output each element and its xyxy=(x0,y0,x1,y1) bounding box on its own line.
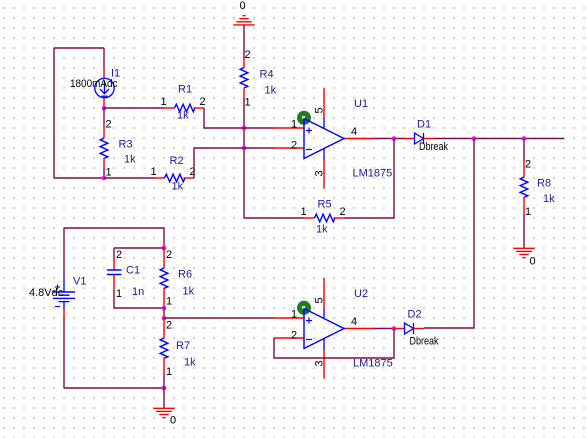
junction xyxy=(162,386,167,391)
svg-text:R5: R5 xyxy=(318,199,332,211)
resistor R1 xyxy=(161,84,206,122)
wire xyxy=(103,168,105,178)
svg-text:2: 2 xyxy=(190,166,196,178)
wire xyxy=(63,318,65,388)
svg-text:1k: 1k xyxy=(124,154,136,166)
wire xyxy=(104,177,154,179)
junction xyxy=(392,136,397,141)
svg-text:0: 0 xyxy=(240,0,246,12)
svg-text:2: 2 xyxy=(245,49,251,61)
junction xyxy=(472,136,477,141)
svg-text:3: 3 xyxy=(314,170,326,176)
wire xyxy=(63,228,65,278)
svg-text:1k: 1k xyxy=(177,110,189,122)
svg-text:2: 2 xyxy=(340,206,346,218)
svg-text:U2: U2 xyxy=(354,288,368,300)
wire xyxy=(53,48,55,178)
svg-text:1: 1 xyxy=(291,309,297,321)
junction xyxy=(242,146,247,151)
svg-text:R7: R7 xyxy=(176,340,190,352)
svg-text:R4: R4 xyxy=(260,69,274,81)
svg-text:1: 1 xyxy=(106,167,112,179)
diode D2 xyxy=(394,309,439,348)
wire xyxy=(344,139,394,219)
svg-text:1k: 1k xyxy=(183,286,195,298)
svg-text:0: 0 xyxy=(530,256,536,268)
svg-text:2: 2 xyxy=(291,330,297,342)
svg-text:5: 5 xyxy=(314,107,326,113)
svg-text:1k: 1k xyxy=(316,224,328,236)
ground 0 (top, inverted) xyxy=(233,16,254,25)
svg-text:LM1875: LM1875 xyxy=(353,358,393,370)
svg-text:V1: V1 xyxy=(73,276,86,288)
svg-text:R2: R2 xyxy=(170,155,184,167)
wire xyxy=(114,247,164,249)
junction xyxy=(522,136,527,141)
marker (green) at U1 pin 1 xyxy=(297,111,311,125)
svg-text:1: 1 xyxy=(245,97,251,109)
ground 0 (right) xyxy=(513,248,534,257)
svg-text:R1: R1 xyxy=(178,84,192,96)
svg-text:2: 2 xyxy=(166,320,172,332)
svg-text:LM1875: LM1875 xyxy=(353,168,393,180)
svg-text:1k: 1k xyxy=(543,193,555,205)
svg-text:2: 2 xyxy=(200,96,206,108)
wire xyxy=(194,148,274,178)
wire xyxy=(204,108,274,128)
wire xyxy=(113,248,115,257)
junction xyxy=(392,326,397,331)
svg-text:1k: 1k xyxy=(184,357,196,369)
junction xyxy=(162,316,167,321)
resistor R7 xyxy=(160,318,196,378)
svg-text:U1: U1 xyxy=(354,98,368,110)
svg-text:R3: R3 xyxy=(119,139,133,151)
svg-text:1: 1 xyxy=(525,206,531,218)
svg-text:1: 1 xyxy=(301,206,307,218)
wire xyxy=(424,139,474,329)
wire xyxy=(374,328,394,330)
wire xyxy=(103,48,105,68)
svg-text:D1: D1 xyxy=(417,119,431,131)
ground 0 (bottom) xyxy=(153,408,174,417)
resistor R5 xyxy=(301,199,346,236)
svg-text:5: 5 xyxy=(314,297,326,303)
junction xyxy=(102,106,107,111)
svg-text:2: 2 xyxy=(291,140,297,152)
wire xyxy=(54,47,104,49)
svg-text:Dbreak: Dbreak xyxy=(419,141,448,153)
wire xyxy=(243,25,245,58)
resistor R3 xyxy=(100,119,136,179)
wire xyxy=(54,177,104,179)
wire xyxy=(274,329,394,359)
wire xyxy=(104,107,164,109)
marker (green) at U2 pin 1 xyxy=(297,301,311,315)
junction xyxy=(242,126,247,131)
svg-text:1k: 1k xyxy=(265,85,277,97)
svg-text:0: 0 xyxy=(170,415,176,427)
capacitor C1 xyxy=(107,249,144,300)
svg-text:R8: R8 xyxy=(537,178,551,190)
svg-text:1: 1 xyxy=(166,296,172,308)
resistor R4 xyxy=(240,49,276,109)
svg-text:2: 2 xyxy=(166,249,172,261)
svg-text:1: 1 xyxy=(291,119,297,131)
svg-text:C1: C1 xyxy=(126,265,140,277)
current source I1 xyxy=(70,68,120,109)
resistor R8 xyxy=(520,159,555,219)
wire xyxy=(114,290,164,308)
junction xyxy=(162,246,167,251)
svg-text:1: 1 xyxy=(116,288,122,300)
op-amp U1 xyxy=(274,88,392,189)
wire xyxy=(244,217,304,219)
svg-text:4: 4 xyxy=(351,126,357,138)
wire xyxy=(523,139,525,163)
voltage source V1 xyxy=(29,276,86,319)
wire xyxy=(374,138,404,140)
wire xyxy=(434,138,564,140)
svg-text:2: 2 xyxy=(106,119,112,131)
junction xyxy=(102,176,107,181)
svg-text:4.8Vdc: 4.8Vdc xyxy=(29,287,64,299)
svg-text:1n: 1n xyxy=(132,286,144,298)
wire xyxy=(163,388,165,408)
svg-text:Dbreak: Dbreak xyxy=(410,336,439,348)
svg-text:4: 4 xyxy=(351,316,357,328)
wire xyxy=(163,307,165,318)
wire xyxy=(523,214,525,248)
svg-text:R6: R6 xyxy=(178,269,192,281)
resistor R6 xyxy=(160,248,194,308)
wire xyxy=(164,317,274,319)
wire xyxy=(103,108,105,128)
op-amp U2 xyxy=(274,278,393,379)
svg-text:1: 1 xyxy=(161,96,167,108)
diode D1 xyxy=(404,119,448,154)
wire xyxy=(64,228,164,248)
wire xyxy=(243,98,245,218)
svg-text:1800mAdc: 1800mAdc xyxy=(70,78,118,90)
wire xyxy=(163,373,165,388)
svg-text:1: 1 xyxy=(151,166,157,178)
svg-text:2: 2 xyxy=(116,249,122,261)
junction xyxy=(162,306,167,311)
svg-text:1k: 1k xyxy=(172,181,184,193)
svg-text:D2: D2 xyxy=(408,309,422,321)
svg-text:1: 1 xyxy=(166,366,172,378)
wire xyxy=(64,387,164,389)
svg-text:2: 2 xyxy=(525,159,531,171)
svg-text:3: 3 xyxy=(314,360,326,366)
resistor R2 xyxy=(151,155,196,193)
